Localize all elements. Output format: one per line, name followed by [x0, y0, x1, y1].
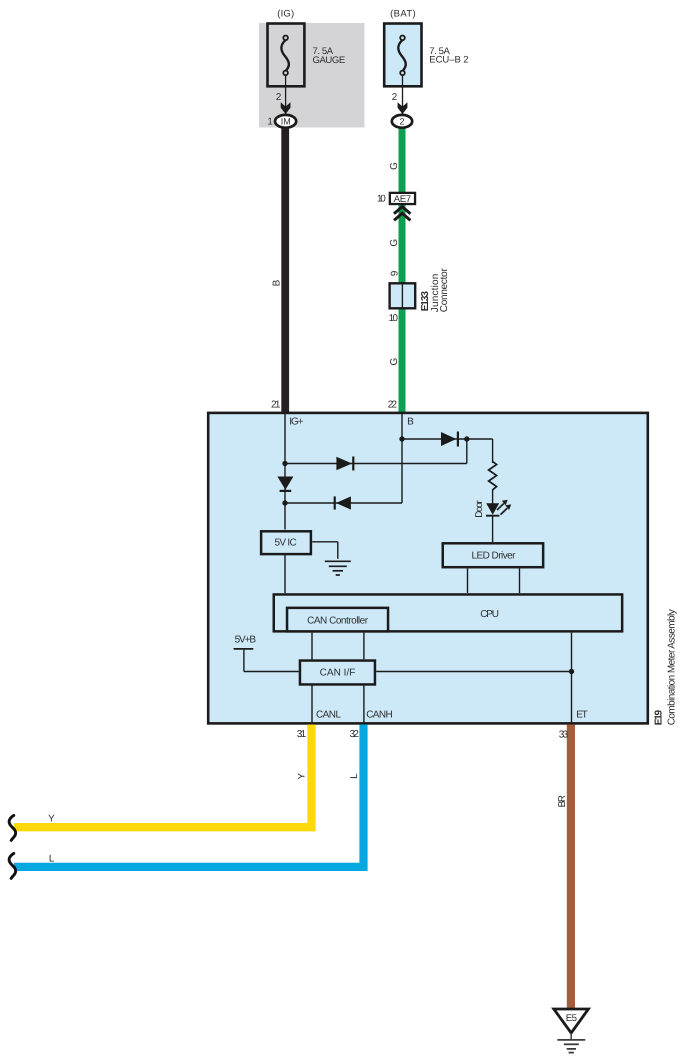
svg-text:10: 10 — [389, 313, 399, 324]
svg-text:IM: IM — [281, 116, 291, 126]
svg-text:GAUGE: GAUGE — [313, 55, 346, 66]
svg-text:CAN I/F: CAN I/F — [320, 668, 356, 679]
svg-text:AE7: AE7 — [394, 194, 412, 205]
svg-text:CPU: CPU — [480, 609, 499, 620]
svg-text:B: B — [407, 417, 414, 428]
svg-text:Combination Meter Assembly: Combination Meter Assembly — [666, 609, 677, 725]
svg-text:ECU–B 2: ECU–B 2 — [429, 55, 468, 66]
svg-text:31: 31 — [297, 729, 307, 740]
svg-text:Y: Y — [296, 772, 307, 779]
svg-text:G: G — [389, 162, 400, 170]
svg-text:9: 9 — [390, 271, 401, 276]
svg-text:E5: E5 — [566, 1013, 577, 1024]
svg-text:E19: E19 — [653, 709, 664, 725]
svg-text:2: 2 — [399, 116, 404, 126]
svg-text:IG+: IG+ — [289, 417, 304, 428]
svg-text:(BAT): (BAT) — [390, 8, 416, 19]
svg-text:32: 32 — [350, 729, 360, 740]
svg-text:L: L — [349, 773, 360, 779]
svg-text:2: 2 — [276, 92, 281, 103]
svg-text:CANH: CANH — [366, 710, 393, 721]
svg-text:5V IC: 5V IC — [275, 537, 297, 548]
svg-text:CAN Controller: CAN Controller — [307, 616, 369, 627]
svg-text:LED Driver: LED Driver — [472, 550, 517, 561]
svg-text:2: 2 — [392, 92, 397, 103]
svg-text:5V+B: 5V+B — [235, 635, 257, 646]
svg-text:ET: ET — [576, 710, 587, 721]
svg-text:BR: BR — [557, 795, 568, 807]
svg-text:G: G — [389, 239, 400, 247]
svg-text:L: L — [49, 853, 55, 864]
svg-text:21: 21 — [271, 399, 281, 410]
svg-text:G: G — [389, 357, 400, 365]
svg-text:1: 1 — [267, 116, 272, 127]
svg-text:22: 22 — [388, 399, 398, 410]
svg-text:B: B — [271, 279, 282, 286]
svg-text:Door: Door — [474, 500, 485, 518]
svg-text:CANL: CANL — [316, 710, 341, 721]
svg-text:10: 10 — [377, 194, 386, 205]
svg-text:Y: Y — [48, 813, 55, 824]
svg-text:33: 33 — [559, 729, 569, 740]
svg-text:(IG): (IG) — [277, 8, 294, 19]
svg-text:Connector: Connector — [439, 268, 450, 313]
